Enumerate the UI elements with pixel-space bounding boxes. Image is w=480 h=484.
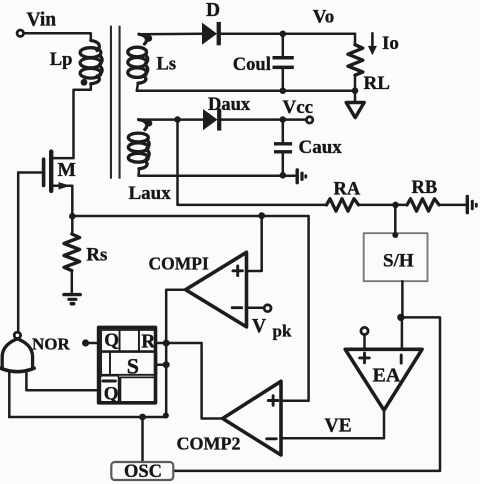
wire S/H bottom to EA minus — [401, 281, 404, 317]
wire Coul bottom — [282, 69, 285, 91]
wire RA to RB — [359, 204, 408, 207]
node junction OSC tap — [139, 414, 146, 421]
wire NOR output to gate — [17, 173, 20, 333]
svg-text:V: V — [252, 316, 266, 337]
svg-text:Coul: Coul — [233, 55, 271, 75]
error amplifier EA — [345, 349, 422, 410]
wire to Coul — [282, 34, 285, 56]
svg-text:RL: RL — [364, 73, 390, 94]
node junction EA minus — [397, 314, 404, 321]
node junction CS to COMPI — [258, 212, 265, 219]
block OSC — [111, 462, 173, 480]
block S/H — [364, 233, 428, 281]
polarity dot Lp — [81, 79, 88, 86]
node junction divider mid — [392, 202, 399, 209]
svg-text:Vin: Vin — [27, 10, 57, 31]
comparator COMP2 — [223, 381, 281, 455]
wire Q stub — [89, 342, 99, 345]
wire CS to COMPI plus — [247, 216, 262, 271]
wire OSC to clock rail — [141, 417, 144, 462]
ground below Rs — [62, 293, 82, 306]
inductor Ls — [128, 34, 148, 83]
wire aux bottom rail — [139, 174, 295, 177]
polarity dot Ls — [145, 35, 152, 42]
inductor Lp — [80, 41, 102, 84]
wire S input stub — [156, 363, 167, 366]
svg-text:pk: pk — [273, 322, 292, 341]
wire vertical COMPI output / latch inputs — [166, 290, 185, 417]
svg-text:D: D — [206, 0, 220, 21]
wire divider tap down to RA — [178, 120, 327, 205]
resistor RA — [327, 199, 359, 211]
terminal dot Q — [82, 339, 89, 346]
wire Lp to MOSFET drain — [53, 84, 90, 158]
svg-text:Daux: Daux — [208, 95, 251, 115]
resistor RB — [407, 199, 439, 211]
wire Laux top rail to Daux — [139, 118, 203, 121]
svg-text:Rs: Rs — [86, 244, 107, 265]
wire COMPI minus to Vpk — [247, 307, 265, 310]
node junction S — [163, 361, 170, 368]
wire junction to Rs — [71, 216, 74, 234]
svg-text:COMP2: COMP2 — [177, 434, 241, 454]
svg-text:Ls: Ls — [157, 54, 177, 74]
wire EA plus stub — [363, 335, 366, 350]
node junction Caux bottom — [280, 172, 287, 179]
wire to Caux — [282, 120, 285, 143]
resistor Rs — [64, 234, 80, 271]
ground below RL — [346, 103, 364, 118]
diode D — [202, 22, 221, 45]
diode Daux — [203, 109, 221, 131]
wire Caux bottom — [282, 154, 285, 176]
node junction Coul top — [280, 31, 287, 38]
wire Ls bottom — [137, 83, 138, 91]
svg-text:Q: Q — [104, 384, 119, 405]
SR latch U2 — [99, 327, 157, 402]
ground right of Caux — [296, 168, 308, 184]
wire Laux bottom — [137, 169, 140, 176]
node junction RL bottom — [352, 87, 359, 94]
current arrow Io — [368, 33, 377, 55]
svg-text:S/H: S/H — [383, 251, 414, 272]
wire secondary bottom rail — [137, 89, 355, 92]
svg-text:COMPI: COMPI — [149, 254, 209, 274]
node dot S/H top — [392, 232, 398, 238]
capacitor Caux — [274, 142, 292, 153]
terminal Vin — [17, 30, 23, 36]
node junction Caux top — [280, 116, 287, 123]
svg-text:M: M — [58, 160, 76, 181]
svg-text:Lp: Lp — [50, 50, 73, 70]
overbar of Qbar — [103, 380, 115, 383]
wire Vo rail to RL — [354, 34, 357, 45]
ground right of RB — [466, 195, 478, 215]
wire feedback right loop — [173, 317, 440, 471]
wire NOR input left — [8, 371, 11, 417]
svg-text:Caux: Caux — [299, 137, 343, 158]
svg-text:EA: EA — [373, 365, 401, 387]
wire Vin to Lp — [23, 33, 90, 40]
inductor Laux — [128, 120, 149, 169]
svg-text:RB: RB — [412, 178, 438, 198]
node junction source/Rs — [69, 213, 76, 220]
svg-text:RA: RA — [334, 180, 361, 200]
MOSFET M — [18, 149, 72, 216]
node junction divider tap — [174, 116, 181, 123]
svg-text:NOR: NOR — [32, 335, 71, 354]
node junction clock corner — [163, 413, 169, 419]
wire RL bottom — [354, 75, 357, 102]
wire divider to S/H — [394, 205, 397, 236]
svg-text:S: S — [127, 354, 139, 379]
svg-text:Vcc: Vcc — [283, 97, 314, 118]
transformer core — [110, 26, 121, 179]
svg-text:Laux: Laux — [129, 183, 172, 204]
terminal EA plus — [361, 327, 368, 334]
capacitor Coul — [273, 56, 294, 69]
resistor RL — [348, 45, 363, 75]
wire NOR input right from Qbar — [26, 371, 98, 390]
wire Ls top rail to diode D — [139, 33, 202, 36]
svg-text:R: R — [141, 331, 156, 352]
wire current sense rail — [72, 216, 308, 401]
svg-text:Q: Q — [104, 330, 119, 351]
wire D to Vo rail — [221, 33, 355, 36]
terminal Vpk — [264, 305, 271, 312]
terminal Vcc — [306, 117, 312, 123]
svg-text:VE: VE — [325, 416, 352, 437]
wire EA output VE — [281, 410, 384, 438]
wire RB to ground — [439, 204, 466, 207]
svg-text:Vo: Vo — [313, 7, 334, 28]
wire Daux to Vcc — [221, 118, 306, 121]
svg-text:Io: Io — [382, 33, 399, 54]
NOR gate U1 — [1, 332, 35, 372]
wire clock rail — [9, 416, 166, 419]
polarity dot Laux — [146, 120, 153, 127]
comparator COMPI — [186, 252, 247, 327]
wire R input — [157, 343, 222, 419]
node junction R — [163, 340, 170, 347]
wire EA minus down — [401, 317, 404, 349]
node junction Coul bottom — [280, 87, 287, 94]
wire Rs to ground — [71, 271, 74, 294]
svg-text:OSC: OSC — [124, 462, 162, 482]
